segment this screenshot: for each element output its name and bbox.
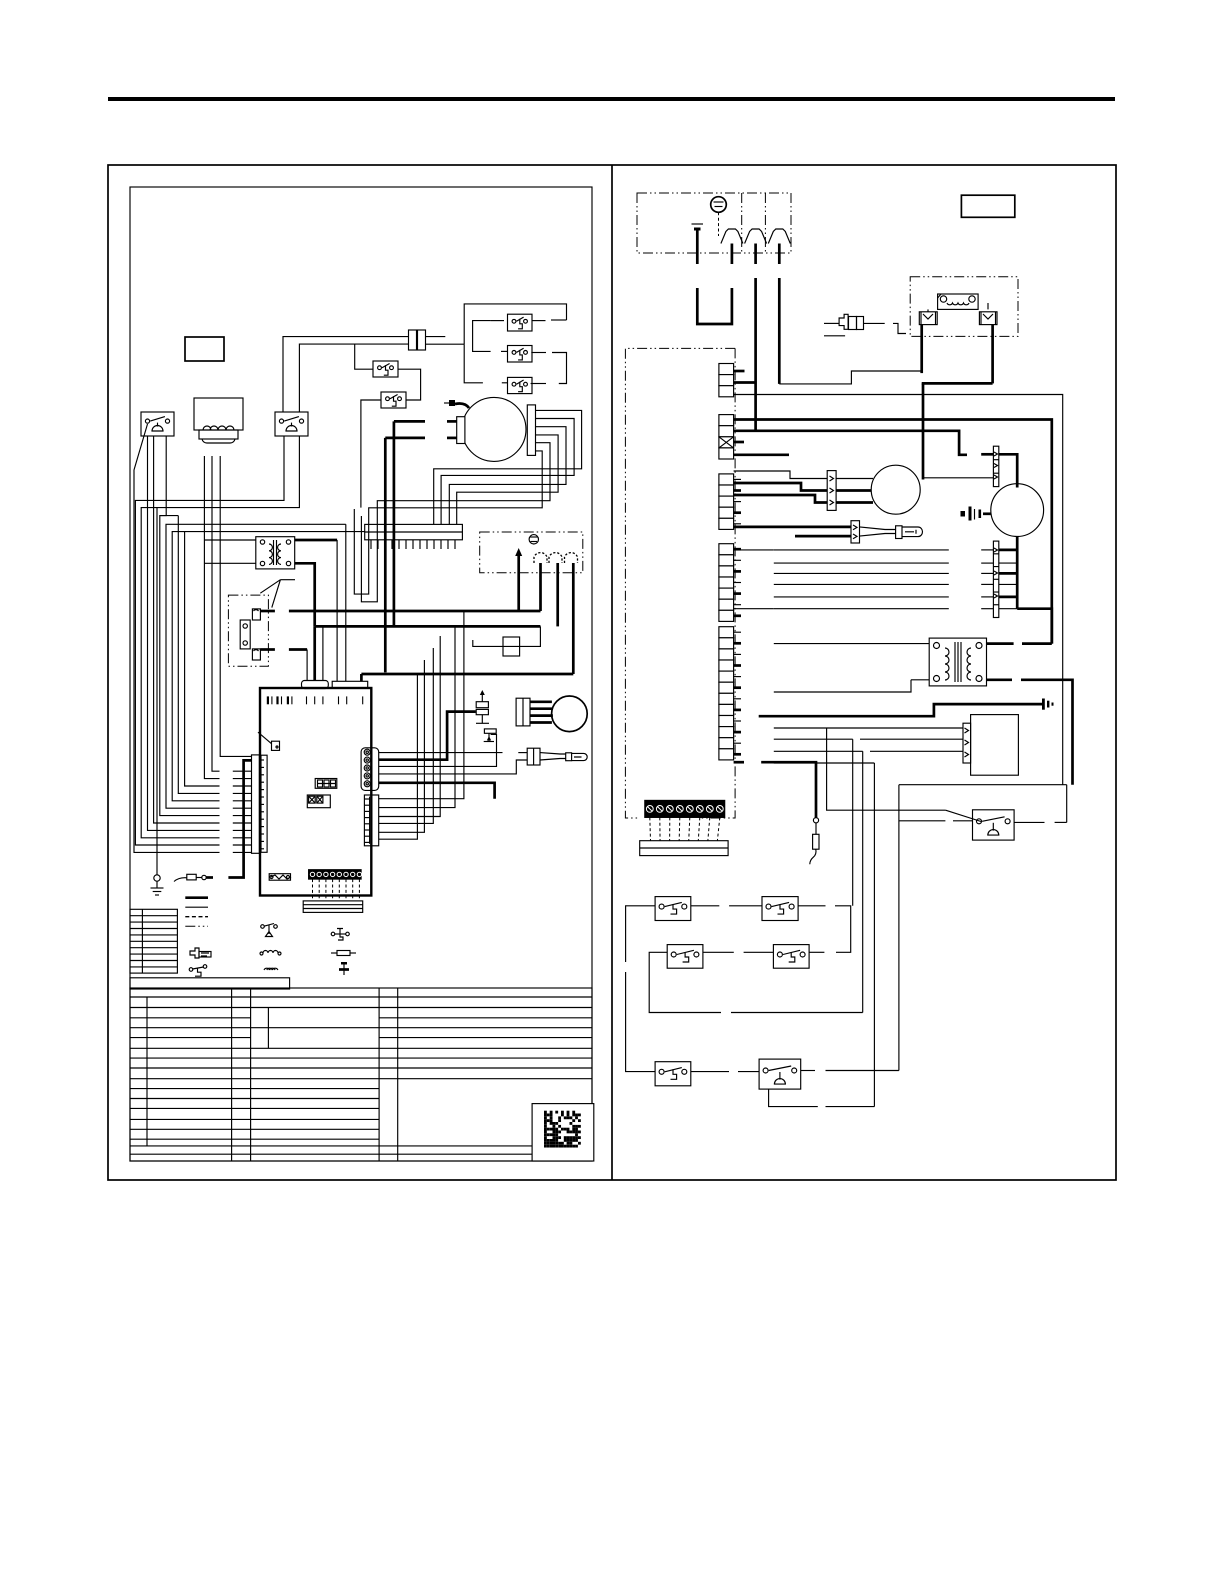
wire neutral row	[361, 673, 573, 676]
gas valve pilot	[484, 729, 496, 742]
wire PS2 left stub	[501, 350, 508, 352]
bracket PS2-PS3 right	[552, 353, 567, 384]
inducer motor schematic	[871, 465, 920, 514]
wire K6-FS	[691, 1071, 759, 1073]
board chip U3	[258, 732, 280, 750]
wire vert 898	[898, 785, 900, 1071]
relay K2	[655, 897, 691, 921]
model label box	[185, 337, 224, 361]
wire T1 right top	[295, 539, 337, 542]
pressure switch PS2	[508, 346, 533, 363]
wire idm1	[734, 471, 828, 479]
wire T1 rb drop	[313, 626, 316, 681]
wire y784	[899, 784, 1067, 786]
limit switch LS	[946, 810, 1015, 840]
wire row2 return	[731, 1012, 863, 1014]
relay K3	[762, 897, 798, 921]
terminal group 3	[719, 474, 734, 529]
anticipator hump 1	[721, 229, 743, 244]
wire W4 door leg2	[154, 436, 220, 823]
wire humidifier R drop	[991, 325, 994, 384]
wire P3 lead 5	[379, 660, 425, 832]
wire stub	[233, 822, 252, 824]
wire IDM feed 2	[385, 437, 456, 440]
wire T2 pri b2	[774, 680, 911, 692]
wire ground feed	[156, 508, 158, 875]
wire hum down2	[923, 477, 993, 479]
wire BLM lead3	[530, 714, 553, 717]
key thermal switch	[331, 929, 349, 941]
thermostat separator 2	[764, 193, 766, 253]
inducer motor IDM	[457, 397, 536, 461]
key resistor	[331, 951, 356, 956]
wire interlock leg3	[220, 456, 251, 756]
thermostat boundary	[637, 193, 791, 253]
wire eac3b	[870, 750, 963, 752]
wire fuse right top	[426, 336, 445, 338]
thermostat separator 1	[741, 193, 743, 253]
wire door harness bottom	[260, 648, 307, 651]
terminal pin stubs	[734, 479, 741, 754]
ground screw symbol	[529, 535, 538, 544]
wire line2	[734, 431, 967, 455]
wire motor neutral	[1017, 609, 1052, 644]
wire W5b row ext	[160, 515, 179, 517]
relay K4	[667, 945, 703, 969]
door harness boundary	[228, 595, 268, 666]
wire vert 852	[852, 739, 854, 906]
wire to fuse top	[283, 337, 409, 412]
wire humid con out	[999, 454, 1017, 487]
humid connector	[993, 446, 998, 486]
outer border	[108, 165, 1116, 1180]
igniter bracket	[851, 521, 860, 543]
wire to fuse bottom	[299, 344, 409, 412]
wire sensor to board	[228, 760, 251, 877]
wire W1 limit-to-board	[135, 436, 284, 845]
wire line4	[734, 453, 789, 456]
key ground	[339, 962, 349, 975]
door harness pointer	[260, 580, 295, 608]
wire T2 sec bottom2	[1021, 680, 1073, 785]
arrow ground lead	[515, 548, 522, 611]
inline fuse F4	[810, 818, 819, 865]
speed tap bus	[1016, 537, 1019, 609]
wire P2 out3	[379, 734, 497, 766]
wire IDM output 2	[441, 419, 574, 525]
wire stub	[233, 800, 252, 802]
igniter IGN	[527, 748, 566, 765]
wire T2 pri bottom	[911, 679, 929, 681]
ground symbol right	[1042, 699, 1054, 710]
wire humidifier L drop	[920, 325, 923, 374]
wire FS bottom	[769, 1089, 818, 1107]
board top tab 2	[332, 681, 368, 688]
fuse F2	[503, 637, 520, 656]
wire prong1 drop	[539, 563, 542, 611]
wire W8 drop	[178, 516, 219, 794]
spark sensor tip	[444, 400, 469, 408]
door switch S1	[141, 412, 174, 436]
terminal group 2	[719, 415, 734, 459]
wire Y acc	[734, 395, 1063, 785]
wire T2 sec bottom	[987, 678, 1013, 681]
board vent slots	[268, 696, 363, 704]
wire PS1 right corner	[551, 319, 567, 321]
wire vert 1066	[1066, 785, 1068, 823]
wire BLM lead4	[530, 721, 552, 724]
wire TB2 drop	[345, 524, 347, 681]
wire BLM lead1	[530, 700, 552, 703]
wire IDM output 5	[361, 443, 550, 602]
wire tab drop 322	[322, 626, 324, 681]
wire idm con2	[836, 489, 871, 492]
wire FS right	[801, 1070, 899, 1072]
igniter bulb	[860, 526, 923, 539]
wire hot feed	[734, 420, 1052, 644]
wire IDM feed drop 2	[384, 438, 387, 673]
plug prong 3	[565, 553, 578, 563]
wire P3 lead 2	[379, 626, 455, 807]
wire hot row 626	[315, 625, 541, 628]
wire idm2	[734, 483, 828, 491]
junction box boundary	[480, 532, 583, 573]
limit switch S2	[275, 412, 308, 436]
wire P2 out1	[379, 752, 528, 754]
lv plug bar	[640, 841, 728, 856]
wire Y drop	[754, 278, 757, 431]
wire R stub	[734, 370, 745, 373]
key coil symbol	[263, 951, 278, 954]
speed tap connector	[993, 541, 998, 617]
bracket PS1-PS2 left	[473, 321, 491, 352]
wire T1 left top	[204, 539, 255, 541]
page top rule	[108, 97, 1115, 101]
board relay K1	[269, 874, 291, 881]
legend sample thick	[185, 896, 208, 899]
wire W3 door leg1	[148, 436, 220, 830]
speed tap rungs	[999, 550, 1017, 609]
humidifier coil	[938, 294, 979, 309]
TB1 legs	[371, 540, 455, 549]
wire stub	[233, 815, 252, 817]
wire PS3 left lead	[502, 382, 508, 384]
board right connector P2	[361, 748, 379, 791]
transformer T2	[929, 638, 986, 686]
wire PS3 right	[531, 383, 546, 385]
wire hum down	[922, 383, 925, 479]
wire stub	[233, 785, 252, 787]
relay K5	[773, 945, 809, 969]
flame sensor lead	[174, 878, 187, 882]
wire K4-K5	[703, 951, 774, 953]
qr frame	[532, 1104, 594, 1161]
specification table	[130, 988, 592, 1161]
line fuse F1	[409, 330, 426, 350]
wire IDM feed drop 1	[393, 421, 396, 626]
wire P3 lead 1	[379, 611, 464, 799]
wire T2 pri top	[774, 643, 929, 645]
wire tab drop 361	[360, 674, 363, 681]
wire ign2	[795, 535, 851, 538]
wire stub	[233, 844, 252, 846]
wire idm con1	[836, 478, 873, 480]
wire bundle 6	[774, 608, 949, 610]
interlock block J1	[194, 398, 243, 430]
wire G drop	[778, 278, 781, 384]
humidifier terminal L	[919, 294, 941, 325]
data matrix code	[544, 1111, 581, 1148]
legend sample dashed	[185, 916, 208, 918]
terminal group 5	[719, 627, 734, 760]
thermostat bulb	[711, 197, 727, 236]
wire S4 left	[361, 400, 381, 508]
legend table	[130, 909, 177, 973]
gas valve GV	[476, 690, 489, 723]
wire PS rail	[464, 304, 566, 344]
blower motor BLM	[516, 696, 587, 732]
wire eac2	[774, 738, 853, 740]
low voltage connector	[645, 800, 725, 817]
wire door harness top	[260, 610, 540, 613]
pressure switch PS3	[508, 377, 533, 393]
legend sample dashdot	[185, 925, 208, 927]
wire P2 out5	[379, 783, 495, 799]
fan switch FS	[759, 1059, 801, 1089]
aux limit switch S4	[381, 392, 406, 408]
wire W7 row 531	[172, 532, 365, 801]
wire IDM output 6	[354, 451, 542, 594]
wire door-switch slant leg	[134, 424, 220, 852]
transformer T1	[256, 537, 295, 569]
anticipator hump 2	[745, 229, 767, 244]
wire slant stub	[233, 851, 252, 853]
wire PS1 right	[532, 320, 546, 322]
humidifier terminal R	[979, 303, 997, 325]
wire stub	[233, 829, 252, 831]
wire hum step	[779, 371, 921, 384]
wire stub	[233, 770, 252, 772]
wire stub	[233, 792, 252, 794]
wire bundle stub	[734, 549, 774, 551]
wire P3 lead 4	[379, 648, 434, 823]
wire idm con3	[836, 501, 873, 504]
board left connector P1	[252, 755, 268, 853]
wire interlock leg2	[212, 456, 220, 771]
wire rail left	[626, 906, 656, 1072]
left inner border	[130, 187, 592, 1161]
key inductor symbol	[264, 968, 278, 970]
wire PS2 right	[531, 352, 546, 354]
wire bundle 1	[774, 549, 949, 551]
door harness connector	[240, 609, 260, 660]
wire stub	[233, 837, 252, 839]
wire ign1	[734, 526, 851, 529]
wire humid pin1	[981, 453, 993, 456]
wire W5 door leg3	[160, 436, 220, 816]
wire vert 862	[862, 751, 864, 1012]
wire T1 left bottom	[204, 562, 255, 564]
board top tab 1	[302, 681, 329, 689]
humidifier boundary	[910, 277, 1018, 337]
wire LS left	[899, 820, 973, 822]
wire P2 out2	[379, 712, 476, 760]
wire bundle 4	[774, 583, 949, 585]
wire LS right	[1014, 821, 1067, 823]
wire fuse F2 lead right	[520, 626, 541, 646]
wire P3 lead 3	[379, 636, 441, 817]
wire BLM lead2	[530, 707, 553, 710]
schematic label box	[961, 195, 1014, 217]
board DIP switches	[307, 795, 330, 808]
key plug symbol	[190, 948, 211, 958]
wire vert 874	[873, 763, 875, 1107]
wire fuse F4 feed	[734, 762, 816, 818]
center divider	[611, 165, 613, 1180]
board strip leads	[313, 879, 360, 901]
wire bundle 5	[774, 596, 949, 598]
wire W9 drop	[185, 532, 220, 786]
wire fuse F2 lead left	[473, 640, 503, 646]
furnace control board CPU	[260, 688, 371, 896]
wire T1 right top drop	[336, 540, 338, 681]
wire door harness bottom drop	[306, 650, 308, 682]
ground symbol chassis	[151, 875, 164, 895]
igniter element	[566, 753, 587, 761]
wire idm3	[734, 495, 828, 503]
plug prong 2	[549, 553, 562, 563]
thermostat plug bar	[303, 901, 363, 913]
wire line3	[734, 441, 744, 444]
board right connector P3	[364, 795, 378, 846]
control boundary right	[700, 348, 735, 818]
wire stub	[233, 778, 252, 780]
aux limit switch S3	[373, 361, 398, 377]
wire prong2 drop	[556, 563, 559, 626]
anticipator hump 3	[768, 229, 790, 244]
wire K2-K3	[691, 905, 762, 907]
capacitor sym	[961, 507, 991, 521]
wire eac1	[774, 727, 963, 729]
wire fuse right bottom	[426, 343, 464, 345]
wire T1 right bottom	[295, 563, 315, 626]
relay K6	[655, 1062, 691, 1086]
wire eac2b	[860, 738, 963, 740]
wire W2 limit-to-board	[141, 436, 299, 838]
wire LS feed	[827, 728, 946, 810]
wire FS bottom2	[826, 1106, 875, 1108]
blower motor schematic	[991, 484, 1044, 537]
wire 24v common	[759, 704, 1042, 716]
lv connector leads	[650, 817, 720, 840]
wire interlock leg1	[204, 456, 219, 779]
pressure switch PS1	[508, 314, 533, 331]
plug prong 1	[534, 553, 547, 563]
speed tap stubs	[981, 550, 993, 609]
legend sample thin	[185, 906, 208, 908]
wire K4 left	[649, 952, 721, 1012]
wire T2 sec top	[987, 642, 1014, 645]
wire prong3 drop	[572, 563, 575, 674]
wire W6 row 524	[166, 524, 346, 808]
resistor R1	[187, 874, 213, 880]
wire IDM output 3	[449, 427, 566, 525]
wire bundle tail	[734, 608, 774, 610]
wire W stub	[734, 381, 756, 384]
key damper symbol	[261, 924, 278, 937]
wire K3 right	[798, 906, 851, 953]
wire W U-pair	[697, 288, 732, 324]
board low-voltage strip	[309, 870, 362, 879]
wire IDM output 4	[457, 435, 558, 525]
line terminal strip TB1	[365, 524, 463, 539]
wire PS1 left lead	[491, 320, 504, 322]
terminal group 1	[719, 364, 734, 397]
wire branch down	[355, 344, 373, 369]
wire hum thick	[922, 382, 993, 385]
wire bundle 3	[774, 572, 949, 574]
wire P2 out4	[379, 760, 528, 774]
inducer connector	[827, 471, 836, 511]
wire bundle 2	[774, 562, 949, 564]
EAC box	[963, 715, 1018, 776]
control boundary	[625, 348, 735, 818]
key switch symbol	[189, 965, 207, 977]
wire eac3	[774, 750, 863, 752]
wire S3 to S4	[398, 369, 421, 400]
wire IDM output 1	[434, 410, 582, 524]
wire stub	[233, 807, 252, 809]
wire P3 lead 6	[379, 674, 418, 839]
wire IDM feed 1	[394, 420, 457, 423]
notes bar	[130, 978, 290, 989]
wire vert 874 stub	[774, 762, 875, 764]
thermostat battery	[692, 224, 704, 264]
wire rail lower	[464, 344, 483, 383]
board 7segment display	[315, 779, 337, 789]
interlock plug body	[199, 426, 238, 443]
terminal group 4	[719, 544, 734, 622]
wire T2 sec top2	[1022, 642, 1052, 645]
fuse F3	[824, 314, 906, 336]
